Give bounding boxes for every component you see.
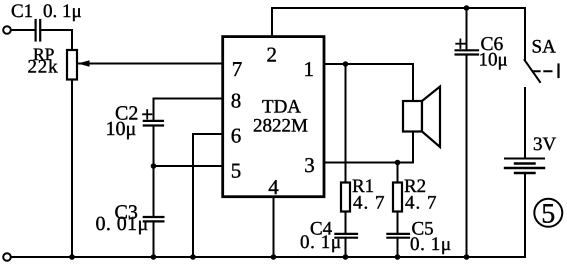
- svg-text:0. 1μ: 0. 1μ: [43, 1, 82, 22]
- plus sign of C2: [143, 110, 151, 118]
- svg-text:0. 01μ: 0. 01μ: [96, 213, 149, 235]
- wire V+ rail to C6: [466, 8, 468, 50]
- wire J1 to C1: [11, 29, 34, 31]
- node ground junction at C4: [343, 254, 349, 260]
- svg-text:3: 3: [304, 153, 315, 177]
- node ground junction at C3: [151, 254, 157, 260]
- plus sign of C6: [456, 39, 465, 48]
- capacitor C3: [144, 217, 164, 221]
- wire C2 to C3: [153, 126, 155, 218]
- switch SA actuator dashed link: [533, 70, 556, 72]
- ground bottom rail: [11, 256, 525, 258]
- wire pin8 to C2: [154, 99, 222, 121]
- wire speaker bottom to pin3 wire: [412, 132, 414, 163]
- svg-text:5: 5: [231, 159, 242, 183]
- svg-text:0. 1μ: 0. 1μ: [410, 234, 452, 255]
- resistor R2: [393, 183, 402, 212]
- input terminal J1 top: [3, 26, 11, 34]
- svg-text:5: 5: [541, 199, 555, 230]
- svg-text:1: 1: [304, 57, 315, 81]
- V+ top rail: [272, 7, 525, 9]
- svg-text:3V: 3V: [533, 134, 557, 155]
- svg-text:0. 1μ: 0. 1μ: [300, 232, 342, 253]
- svg-text:2822M: 2822M: [253, 116, 308, 137]
- capacitor C1: [36, 20, 41, 41]
- wire R2 stub: [397, 163, 399, 183]
- op-amp IC U1 TDA2822M body: [223, 37, 324, 197]
- wire C6 to ground rail: [466, 55, 468, 258]
- node ground junction at C5: [395, 254, 401, 260]
- wire switch to battery: [524, 88, 526, 158]
- switch SA top contact wire: [524, 8, 526, 60]
- node pin1/R1 junction: [343, 61, 349, 67]
- node ground junction at pin6 wire: [190, 254, 196, 260]
- resistor R1: [341, 183, 350, 212]
- wire C4 to ground: [345, 238, 347, 257]
- capacitor C5: [387, 234, 409, 238]
- wire pin3: [324, 162, 413, 164]
- svg-text:7: 7: [232, 57, 243, 81]
- svg-text:8: 8: [231, 89, 242, 113]
- wire pin5: [154, 165, 222, 167]
- node C6 top junction: [464, 5, 470, 11]
- wire RP bottom to ground rail: [71, 80, 73, 258]
- node pin5 junction: [151, 163, 157, 169]
- switch SA blade: [525, 60, 541, 82]
- wire pin6 to ground: [193, 134, 221, 257]
- wire pin4 to ground: [273, 197, 275, 257]
- svg-text:4. 7: 4. 7: [353, 193, 386, 214]
- wire pin2 to V+ rail: [271, 8, 273, 37]
- svg-text:4: 4: [268, 175, 279, 199]
- battery BT 3V: [505, 159, 544, 174]
- node pin3/R2 junction: [395, 160, 401, 166]
- speaker BL: [403, 87, 440, 148]
- capacitor C2: [144, 121, 163, 126]
- svg-text:10μ: 10μ: [479, 50, 508, 71]
- wire R1 to C4: [345, 212, 347, 234]
- node ground junction at C6: [464, 254, 470, 260]
- svg-text:TDA: TDA: [262, 97, 301, 118]
- capacitor C6: [456, 50, 478, 54]
- wire pin1 to speaker top: [324, 64, 413, 101]
- svg-text:10μ: 10μ: [106, 118, 137, 140]
- node ground junction at RP: [69, 254, 75, 260]
- capacitor C4: [335, 234, 357, 238]
- wire C3 to ground rail: [153, 221, 155, 257]
- wire pin1 junction down to R1: [345, 64, 347, 183]
- wire pin7 to RP wiper: [79, 63, 221, 65]
- node ground junction at pin4 wire: [271, 254, 277, 260]
- wire C1 to RP top: [42, 30, 73, 50]
- svg-text:2: 2: [267, 43, 278, 67]
- wire C5 to ground: [397, 238, 399, 257]
- switch SA actuator bar: [557, 65, 559, 78]
- RP wiper arrow: [78, 60, 90, 67]
- svg-text:4. 7: 4. 7: [405, 193, 438, 214]
- input terminal J2 bottom: [3, 253, 11, 261]
- svg-text:6: 6: [231, 124, 242, 148]
- wire battery to ground rail: [524, 173, 526, 257]
- node circled figure number 5: [534, 199, 562, 227]
- svg-text:C1: C1: [11, 1, 33, 22]
- potentiometer RP: [67, 50, 77, 80]
- wire R2 to C5: [397, 212, 399, 234]
- svg-text:22k: 22k: [28, 57, 59, 78]
- svg-text:SA: SA: [532, 37, 557, 58]
